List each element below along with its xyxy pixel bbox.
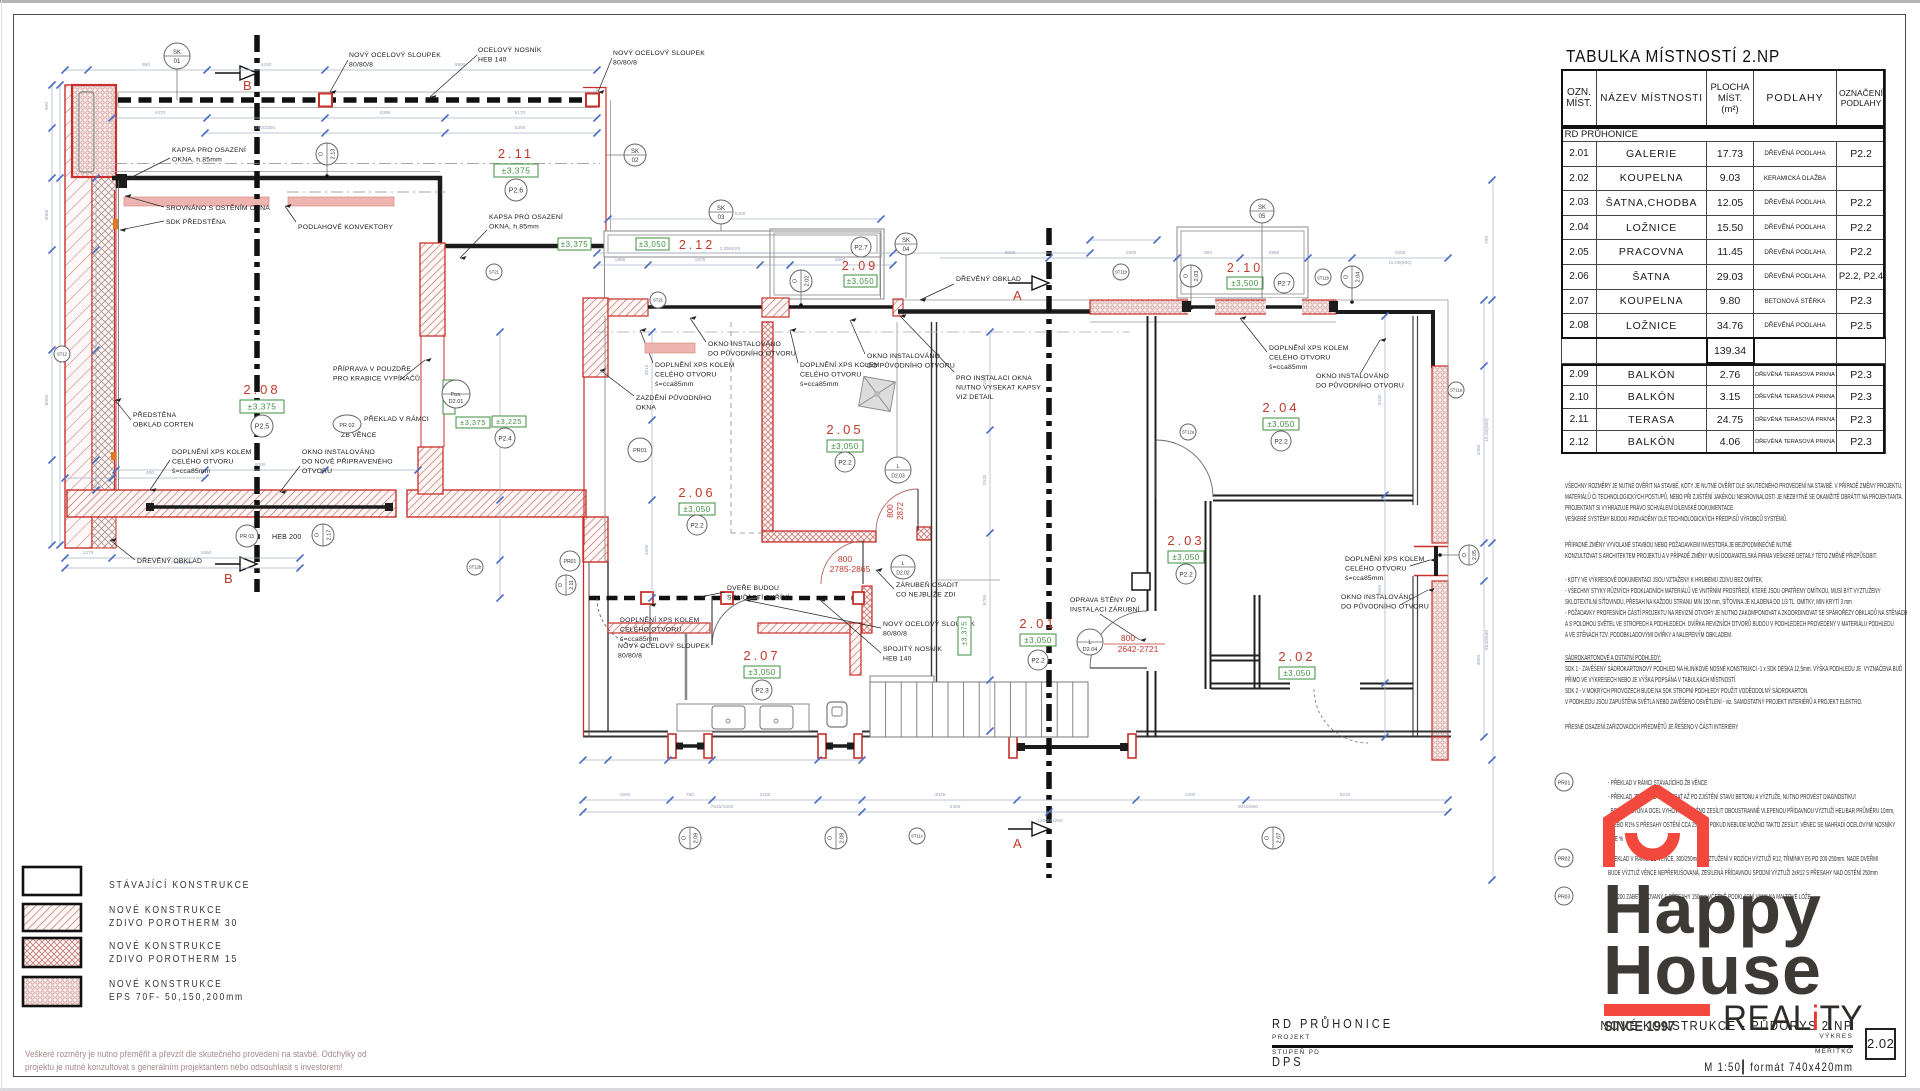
svg-text:P2.7: P2.7 <box>1277 280 1291 287</box>
wall: black L to terrace <box>438 176 443 246</box>
svg-text:OBKLAD CORTEN: OBKLAD CORTEN <box>133 422 194 429</box>
svg-text:NOVÝ OCELOVÝ SLOUPEK: NOVÝ OCELOVÝ SLOUPEK <box>613 48 705 57</box>
interior dims 2.08 <box>95 178 97 490</box>
circle O2.03 balcony <box>1180 265 1202 287</box>
svg-text:5210: 5210 <box>1340 792 1351 798</box>
svg-text:PR03: PR03 <box>1558 895 1571 901</box>
svg-text:DŘEVĚNÝ OBKLAD: DŘEVĚNÝ OBKLAD <box>137 556 202 565</box>
ann konvektory <box>298 222 393 231</box>
svg-text:NOVÝ OCELOVÝ SLOUPEK: NOVÝ OCELOVÝ SLOUPEK <box>349 50 441 59</box>
svg-text:P2.7: P2.7 <box>854 244 868 251</box>
svg-text:2.07: 2.07 <box>743 648 780 663</box>
wc <box>827 702 847 727</box>
door closet left <box>597 598 646 647</box>
ann drevo obklad left <box>137 556 202 565</box>
svg-text:5170: 5170 <box>515 110 526 116</box>
svg-text:2.04: 2.04 <box>1262 400 1299 415</box>
ann srovnano <box>166 203 270 212</box>
svg-text:O: O <box>792 278 798 283</box>
ann doplneni bottom <box>620 615 700 643</box>
staircase <box>870 682 1088 737</box>
svg-text:PRO INSTALACI OKNA: PRO INSTALACI OKNA <box>956 375 1032 382</box>
ann okno puvodni mid2 <box>867 351 955 370</box>
dim chain bottom1 <box>583 799 1448 801</box>
ST11b circle right <box>1315 269 1331 285</box>
ann sdk predstena <box>166 217 226 226</box>
svg-text:3450: 3450 <box>1476 444 1482 455</box>
ann zazdeni <box>636 393 712 412</box>
house icon <box>1601 785 1711 867</box>
convector strip 2.06 <box>645 343 695 353</box>
svg-text:P2.2: P2.2 <box>838 459 852 466</box>
svg-text:6000: 6000 <box>255 462 266 468</box>
ann priprava pouzdre <box>333 364 420 383</box>
svg-text:2950: 2950 <box>1269 250 1280 256</box>
old structure top rails <box>118 91 597 93</box>
svg-text:850: 850 <box>1204 250 1212 256</box>
door 2.03 <box>1090 611 1147 668</box>
door circle D2.02 <box>891 555 915 579</box>
ann doplneni mid2 <box>800 360 880 388</box>
svg-text:L: L <box>901 561 904 567</box>
dim chain top2 <box>112 117 597 119</box>
svg-text:OKNA: OKNA <box>636 405 656 412</box>
top terrace second <box>1090 239 1157 241</box>
black sill in left bottom band <box>150 505 390 509</box>
ann doplneni right <box>1345 554 1425 582</box>
SINCE 1997 <box>1604 1018 1675 1035</box>
svg-text:9015/500: 9015/500 <box>1238 804 1258 810</box>
ann okno right-top <box>1316 371 1404 390</box>
svg-text:PRO KRABICE VYPÍNAČŮ: PRO KRABICE VYPÍNAČŮ <box>333 374 420 383</box>
grid circle SK01 <box>164 43 190 69</box>
svg-text:ST12a: ST12a <box>1182 430 1195 435</box>
ann dvere skrini <box>727 583 789 602</box>
svg-text:SDK PŘEDSTĚNA: SDK PŘEDSTĚNA <box>166 217 226 226</box>
svg-text:O: O <box>1183 273 1189 278</box>
svg-text:±3,050: ±3,050 <box>1267 420 1294 429</box>
terrace boundary lines <box>583 87 606 89</box>
svg-text:±3,375: ±3,375 <box>961 621 968 645</box>
svg-text:PR 03: PR 03 <box>240 534 254 540</box>
balcony 2.12/2.09 rails <box>604 231 881 257</box>
svg-text:±3,050: ±3,050 <box>639 240 666 249</box>
right block inner wall double line <box>1412 316 1414 505</box>
legend box porotherm30 <box>23 904 81 931</box>
svg-text:PŘÍPRAVA V POUZDŘE: PŘÍPRAVA V POUZDŘE <box>333 364 411 373</box>
svg-text:SK: SK <box>902 238 910 244</box>
svg-text:OCELOVÝ NOSNÍK: OCELOVÝ NOSNÍK <box>478 45 542 54</box>
dim chain right v1 <box>1483 300 1485 737</box>
svg-text:3510: 3510 <box>644 364 650 375</box>
svg-text:OKNO INSTALOVÁNO: OKNO INSTALOVÁNO <box>708 339 781 348</box>
ann oprava steny <box>1070 595 1140 614</box>
svg-text:KAPSA PRO OSAZENÍ: KAPSA PRO OSAZENÍ <box>172 145 246 154</box>
svg-text:800: 800 <box>838 554 852 564</box>
svg-text:2000: 2000 <box>1395 250 1406 256</box>
svg-text:1560: 1560 <box>201 550 212 556</box>
svg-text:OKNO INSTALOVÁNO: OKNO INSTALOVÁNO <box>867 351 940 360</box>
svg-text:2.07: 2.07 <box>1276 833 1282 844</box>
svg-text:2.05: 2.05 <box>826 422 863 437</box>
svg-text:CO NEJBLÍŽE ZDI: CO NEJBLÍŽE ZDI <box>896 590 956 599</box>
dim chain interior near A <box>989 332 991 731</box>
svg-text:O: O <box>318 151 324 156</box>
svg-text:O: O <box>681 835 687 840</box>
right interior v <box>1384 316 1386 737</box>
svg-text:4470: 4470 <box>155 110 166 116</box>
svg-text:2535: 2535 <box>982 474 988 485</box>
opening circles bottom <box>679 827 701 849</box>
svg-text:ZÁRUBEŇ OSADIT: ZÁRUBEŇ OSADIT <box>896 580 958 589</box>
svg-text:9500: 9500 <box>455 62 466 68</box>
svg-text:80/80/8: 80/80/8 <box>883 631 907 638</box>
svg-text:1200: 1200 <box>1185 792 1196 798</box>
svg-text:B: B <box>243 78 252 93</box>
svg-text:80/80/8: 80/80/8 <box>613 60 637 67</box>
left faint line <box>1 0 2 1091</box>
svg-text:D2.04: D2.04 <box>1083 647 1098 653</box>
svg-text:80/80/8: 80/80/8 <box>618 653 642 660</box>
ann predstena corten <box>133 410 194 429</box>
dim chain right v2 <box>1492 180 1494 880</box>
svg-text:1800: 1800 <box>1126 250 1137 256</box>
opening circle O2.13 <box>316 143 338 165</box>
svg-text:±3,050: ±3,050 <box>847 277 874 286</box>
door 2.02 dashed <box>1314 689 1368 743</box>
svg-text:š=cca85mm: š=cca85mm <box>655 381 694 388</box>
bottom gray strip <box>0 1088 1920 1091</box>
svg-text:2.05: 2.05 <box>1472 550 1478 560</box>
PR circles in plan <box>628 438 652 462</box>
svg-text:2.10: 2.10 <box>1227 261 1263 275</box>
ne corner black wall <box>1336 310 1435 314</box>
svg-text:01: 01 <box>174 59 181 65</box>
svg-text:1600: 1600 <box>644 544 650 555</box>
svg-text:2785-2865: 2785-2865 <box>830 564 871 574</box>
svg-text:ST12: ST12 <box>57 352 68 357</box>
svg-text:OKNO INSTALOVÁNO: OKNO INSTALOVÁNO <box>1341 592 1414 601</box>
svg-text:P2.2: P2.2 <box>690 522 704 529</box>
svg-text:PODLAHOVÉ KONVEKTORY: PODLAHOVÉ KONVEKTORY <box>298 222 393 231</box>
svg-text:DO NOVĚ PŘIPRAVENÉHO: DO NOVĚ PŘIPRAVENÉHO <box>302 457 393 466</box>
svg-text:Pos.: Pos. <box>450 392 461 398</box>
svg-text:HEB 140: HEB 140 <box>478 57 507 64</box>
svg-text:SK: SK <box>173 50 181 56</box>
ann spojity nosnik <box>883 644 942 663</box>
PR03 margin circle <box>1555 887 1573 905</box>
bottom window frames <box>668 734 676 758</box>
svg-text:ST12b: ST12b <box>469 565 482 570</box>
svg-text:3550: 3550 <box>1476 654 1482 665</box>
svg-text:1955: 1955 <box>615 257 626 263</box>
svg-text:±3,050: ±3,050 <box>1024 636 1051 645</box>
svg-text:3430: 3430 <box>1377 394 1383 405</box>
svg-text:OKNO INSTALOVÁNO: OKNO INSTALOVÁNO <box>1316 371 1389 380</box>
svg-text:15.00(900): 15.00(900) <box>1484 418 1490 442</box>
svg-text:2642-2721: 2642-2721 <box>1118 644 1159 654</box>
svg-text:O: O <box>1343 274 1349 279</box>
svg-text:SOUČÁSTÍ SKŘÍNÍ: SOUČÁSTÍ SKŘÍNÍ <box>727 593 789 602</box>
svg-text:SPOJITÝ NOSNÍK: SPOJITÝ NOSNÍK <box>883 644 942 653</box>
dim chain left1 <box>51 85 53 545</box>
svg-text:2500/300: 2500/300 <box>255 125 275 131</box>
svg-text:15.00(900): 15.00(900) <box>1388 260 1412 266</box>
dim chain top3 <box>205 132 597 134</box>
closet partitions 2.03 <box>1254 595 1256 689</box>
ann zaruben <box>896 580 958 599</box>
svg-text:INSTALACI ZÁRUBNÍ: INSTALACI ZÁRUBNÍ <box>1070 605 1140 614</box>
ST detail circles <box>54 346 70 362</box>
svg-text:PR01: PR01 <box>633 448 647 454</box>
interior dims 2.06 <box>651 332 653 598</box>
svg-text:CELÉHO OTVORU: CELÉHO OTVORU <box>800 370 862 379</box>
grid circle SK04 <box>895 233 917 255</box>
svg-text:950: 950 <box>142 62 150 68</box>
ann top columns <box>349 50 441 69</box>
grid circle SK02 <box>624 144 646 166</box>
bottom wall double line <box>583 731 1451 733</box>
ann okno nove left <box>302 447 393 475</box>
wall: top-left corner block <box>72 85 116 177</box>
PR02 margin circle <box>1555 849 1573 867</box>
svg-text:CELÉHO OTVORU: CELÉHO OTVORU <box>1345 564 1407 573</box>
door circle Pos D2.01 <box>442 380 470 408</box>
svg-text:P2.2: P2.2 <box>1274 438 1288 445</box>
main block west wall <box>583 545 585 737</box>
wall: left outer EPS band <box>65 85 92 548</box>
svg-text:P2.3: P2.3 <box>755 687 769 694</box>
svg-text:±3,375: ±3,375 <box>460 418 486 427</box>
svg-text:B: B <box>224 571 233 586</box>
svg-text:O: O <box>827 835 833 840</box>
svg-text:2.03: 2.03 <box>1167 533 1204 548</box>
svg-text:1275: 1275 <box>83 550 94 556</box>
svg-text:2.08: 2.08 <box>839 833 845 844</box>
ann pro instalaci <box>956 375 1041 401</box>
svg-text:2.08: 2.08 <box>243 382 280 397</box>
steel column squares top <box>319 94 332 107</box>
stairs dim <box>583 759 862 761</box>
svg-text:2.04: 2.04 <box>1355 272 1361 283</box>
svg-text:OTVORU: OTVORU <box>302 468 332 475</box>
ann novy sloupek bottom1 <box>883 619 975 638</box>
svg-text:2.03: 2.03 <box>1194 271 1200 282</box>
svg-text:2200: 2200 <box>760 792 771 798</box>
svg-text:3025: 3025 <box>935 792 946 798</box>
ann kapsa left <box>172 145 246 164</box>
dim chain left2 <box>59 85 61 545</box>
svg-text:2.09: 2.09 <box>842 259 878 273</box>
svg-text:7615/1500: 7615/1500 <box>711 804 734 810</box>
section line A <box>1046 228 1052 878</box>
wall 2.05/2.06 <box>762 322 773 533</box>
svg-text:03: 03 <box>718 215 725 221</box>
wall 2.03/2.04 <box>1213 495 1413 497</box>
svg-text:2.17: 2.17 <box>326 530 332 541</box>
opening circle O2.05 right <box>1438 545 1479 565</box>
svg-text:KAPSA PRO OSAZENÍ: KAPSA PRO OSAZENÍ <box>489 212 563 221</box>
svg-text:VIZ DETAIL: VIZ DETAIL <box>956 394 994 401</box>
svg-text:PŘEKLAD V RÁMCI: PŘEKLAD V RÁMCI <box>364 414 429 423</box>
ann kapsa mid <box>489 212 563 231</box>
svg-text:5795: 5795 <box>982 594 988 605</box>
demolished wall dashed line <box>118 97 597 103</box>
legend box existing <box>23 867 81 895</box>
dim chain bottom2 <box>583 811 1448 813</box>
svg-text:2.02: 2.02 <box>1278 649 1315 664</box>
opening circle O2.17 <box>312 524 334 546</box>
svg-text:NUTNO VYSEKAT KAPSY: NUTNO VYSEKAT KAPSY <box>956 385 1041 392</box>
svg-text:PR01: PR01 <box>564 559 577 565</box>
svg-text:800: 800 <box>1121 633 1135 643</box>
door 2.07 <box>712 598 759 645</box>
svg-text:L: L <box>896 464 899 470</box>
ann doplneni left <box>172 447 252 475</box>
glass partition 2.07 <box>685 633 688 700</box>
svg-text:P2.5: P2.5 <box>255 424 270 431</box>
svg-text:02: 02 <box>632 158 639 164</box>
balcony 2.10 rails <box>1177 227 1308 298</box>
corridor void edge <box>896 322 898 480</box>
door 2.04 <box>1156 440 1213 497</box>
svg-text:DO PŮVODNÍHO OTVORU: DO PŮVODNÍHO OTVORU <box>1316 381 1404 390</box>
svg-text:CELÉHO OTVORU: CELÉHO OTVORU <box>172 457 234 466</box>
balcony jamb blocks <box>1182 301 1191 312</box>
svg-text:±3,225: ±3,225 <box>496 417 522 426</box>
svg-text:š=cca85mm: š=cca85mm <box>1269 364 1308 371</box>
ann novy sloupek bottom2 <box>618 641 710 660</box>
closet doors dashed wall <box>589 596 860 601</box>
svg-text:SROVNÁNO S OSTĚNÍM OKNA: SROVNÁNO S OSTĚNÍM OKNA <box>166 203 270 212</box>
door D2.02 <box>821 541 864 584</box>
svg-text:DO PŮVODNÍHO OTVORU: DO PŮVODNÍHO OTVORU <box>867 361 955 370</box>
svg-text:3000: 3000 <box>1005 250 1016 256</box>
grid circle stems <box>176 69 178 100</box>
wall: pocket-door band <box>420 243 445 336</box>
svg-text:O: O <box>1462 553 1468 557</box>
svg-text:±3,050: ±3,050 <box>1172 553 1199 562</box>
svg-text:HEB 140: HEB 140 <box>883 656 912 663</box>
wall: left-wing bottom band <box>67 490 396 517</box>
wall: left inner masonry band <box>92 85 116 548</box>
shaft box <box>1132 573 1150 590</box>
svg-text:O: O <box>314 532 320 537</box>
ann doplneni mid1 <box>655 360 735 388</box>
dim chain terrace <box>608 218 881 220</box>
svg-text:PR01: PR01 <box>1558 781 1571 787</box>
svg-text:CELÉHO OTVORU: CELÉHO OTVORU <box>655 370 717 379</box>
dims around B bottom <box>65 477 205 479</box>
axis line <box>595 331 1130 333</box>
svg-text:D2.03: D2.03 <box>891 474 905 480</box>
svg-text:OKNA, h.85mm: OKNA, h.85mm <box>489 224 539 231</box>
svg-text:O: O <box>1264 835 1270 840</box>
svg-text:500: 500 <box>44 102 50 110</box>
svg-text:2.02: 2.02 <box>804 276 810 287</box>
svg-text:±3,050: ±3,050 <box>831 442 858 451</box>
grid circle SK03 <box>709 200 733 224</box>
svg-text:PR 02: PR 02 <box>339 423 354 429</box>
svg-text:OKNA, h.85mm: OKNA, h.85mm <box>172 157 222 164</box>
dim chain botleft <box>65 557 300 559</box>
bottom-left mauve disclaimer <box>25 1049 367 1074</box>
room label 2.12 <box>636 238 669 250</box>
ann okno puvodni mid1 <box>708 339 796 358</box>
svg-text:1650: 1650 <box>620 792 631 798</box>
svg-text:š=cca85mm: š=cca85mm <box>800 381 839 388</box>
svg-text:DO PŮVODNÍHO OTVORU: DO PŮVODNÍHO OTVORU <box>708 349 796 358</box>
svg-text:9540/630: 9540/630 <box>1484 630 1490 650</box>
vanity + sinks <box>677 704 809 731</box>
dim chain right top <box>940 257 1448 259</box>
wall: sdk predstena line <box>114 190 116 490</box>
top wall band segments <box>608 299 648 316</box>
svg-text:2.11: 2.11 <box>498 146 534 161</box>
legend box eps <box>23 977 81 1006</box>
steel column blocks at window sills <box>676 743 683 750</box>
svg-text:700: 700 <box>1484 236 1490 244</box>
svg-text:800: 800 <box>886 504 895 518</box>
svg-text:P2.2: P2.2 <box>1179 571 1193 578</box>
bath 2.07 hatched walls <box>608 623 710 633</box>
ann okno right <box>1341 592 1429 611</box>
svg-text:±3,500: ±3,500 <box>1231 279 1258 288</box>
svg-text:±3,050: ±3,050 <box>1283 669 1310 678</box>
dim chain top1 <box>65 69 597 71</box>
svg-text:8050: 8050 <box>44 394 50 405</box>
svg-text:750: 750 <box>686 792 694 798</box>
svg-text:1875: 1875 <box>695 257 706 263</box>
svg-text:2.09: 2.09 <box>693 833 699 844</box>
svg-text:DOPLNĚNÍ XPS KOLEM: DOPLNĚNÍ XPS KOLEM <box>1269 343 1349 352</box>
svg-text:2400: 2400 <box>950 804 961 810</box>
wall south of 2.05 <box>762 531 876 542</box>
svg-text:2.06: 2.06 <box>678 485 715 500</box>
interior dims small top <box>597 264 893 266</box>
svg-text:ZAZDĚNÍ PŮVODNÍHO: ZAZDĚNÍ PŮVODNÍHO <box>636 393 712 402</box>
svg-text:DOPLNĚNÍ XPS KOLEM: DOPLNĚNÍ XPS KOLEM <box>655 360 735 369</box>
opening circle O2.02 <box>790 270 812 292</box>
ann doplneni right-top <box>1269 343 1349 371</box>
dashed finish line left of 2.05 wall <box>730 322 732 533</box>
svg-text:HEB 200: HEB 200 <box>272 534 301 541</box>
svg-text:ST11a: ST11a <box>1450 388 1463 393</box>
opening circle O2.04 <box>1341 266 1363 288</box>
svg-text:80/80/8: 80/80/8 <box>349 62 373 69</box>
bottom-right eps corner <box>1432 737 1448 760</box>
svg-text:š=cca85mm: š=cca85mm <box>1345 575 1384 582</box>
floor convectors <box>124 197 269 206</box>
svg-text:2872: 2872 <box>896 502 905 520</box>
svg-text:P2.2: P2.2 <box>1031 657 1045 664</box>
svg-text:2.01: 2.01 <box>1019 616 1056 631</box>
svg-text:05: 05 <box>1259 214 1266 220</box>
svg-text:PŘEDSTĚNA: PŘEDSTĚNA <box>133 410 177 419</box>
legend box porotherm15 <box>23 938 81 967</box>
svg-text:DOPLNĚNÍ XPS KOLEM: DOPLNĚNÍ XPS KOLEM <box>1345 554 1425 563</box>
svg-text:A: A <box>1013 288 1022 303</box>
svg-text:±3,375: ±3,375 <box>248 402 277 412</box>
svg-text:O: O <box>558 583 564 587</box>
wall hall/2.03 <box>1147 316 1149 611</box>
door circle D2.04 <box>1077 629 1103 655</box>
wall: room 2.08 top black wall <box>112 171 440 173</box>
REALiTY <box>1723 999 1863 1039</box>
svg-text:P2.6: P2.6 <box>509 188 524 195</box>
svg-text:5300: 5300 <box>735 211 746 217</box>
right EPS band <box>1432 366 1448 543</box>
